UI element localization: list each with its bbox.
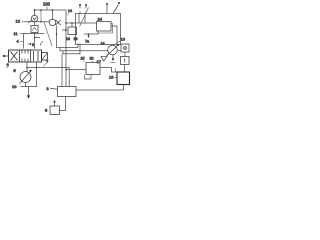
controller 24 shadow [98,24,113,34]
pilot diagonal line [44,22,52,46]
sensor small box 8 [50,106,60,115]
svg-text:13: 13 [66,37,70,41]
staircase step 2 [60,48,108,51]
wire vertical through valves 12 and 11 [34,10,36,49]
svg-text:16: 16 [109,75,114,80]
svg-text:7a: 7a [85,40,90,44]
pump 17 drain arrow [112,55,114,59]
wire bus corner down long [65,10,67,87]
control box2 [86,63,100,75]
valve 11 inner mark [32,28,36,31]
pilot valve box [68,27,77,35]
suction triangle [101,56,107,61]
directional valve actuator arrow left [3,55,9,57]
controller enclosure box [76,14,121,45]
terminal dot 3 [106,3,108,5]
coupling circle [49,19,56,26]
svg-text:11: 11 [14,31,19,36]
motor box 16 [117,72,130,85]
staircase step 3 [63,51,80,54]
valve 11 box [31,26,38,33]
terminal dot 4 [118,2,120,4]
svg-text:8: 8 [45,108,48,113]
manifold box [58,87,77,97]
coil line 2 [84,14,86,23]
sensor box with circle [121,44,129,52]
wire between sensors [124,52,126,57]
wire to motor box [124,65,126,73]
leader 10 [116,41,121,44]
svg-text:24: 24 [97,17,103,22]
node [40,21,42,23]
node [34,37,36,39]
controller 24 box [97,22,112,32]
leader 14 [67,13,69,16]
node [65,69,67,71]
wire up into motor box [123,85,125,91]
svg-text:3: 3 [47,87,49,91]
drain tick bar [111,62,116,64]
svg-text:5: 5 [14,68,17,73]
leader 16 [115,77,117,79]
curved leader to valve top [40,41,43,46]
spring diagonal [42,54,47,60]
leader 4 [20,41,24,43]
valve right cell straight ways [34,51,39,61]
svg-text:10: 10 [12,84,17,89]
node on wire [88,33,90,35]
leader from 100 [46,7,48,11]
node on descent [56,33,58,35]
wire stub into pilot box [71,23,73,27]
wire bus to control box2 [66,69,86,71]
wire horizontal control [66,22,97,24]
wire from 24 box right [111,26,117,44]
terminal stub 1 [79,5,81,14]
leader 2 [44,64,47,67]
wire from box2 right [100,68,117,73]
variable arrow through coil [80,8,89,27]
wire stub bus to coupling [52,10,54,19]
wire circle to triangle [106,54,109,57]
manifold bottom wire [60,97,66,111]
sensor box with bar [121,57,130,65]
tank down wire [28,87,30,96]
svg-text:15: 15 [81,57,85,61]
coil line 1 [78,14,80,23]
spring tick left of valve 12 [28,20,31,23]
wire x41 down to lower line [40,10,42,22]
wire valve port A down [23,34,25,49]
node [71,22,73,24]
pump 5 circle [20,72,31,83]
tank bar [21,86,38,88]
svg-text:12: 12 [16,19,21,24]
svg-text:14: 14 [68,9,72,13]
small tick near box7 [115,69,117,73]
pump 17 circle [108,45,118,55]
control box2 shadow [85,75,92,80]
pump 17 variable arrow [107,45,118,56]
svg-text:7: 7 [46,59,49,64]
stub with arrow [88,34,90,37]
manifold right wire long [76,89,124,91]
coupling X [56,20,61,25]
stub at x66 y30 [62,29,66,31]
svg-text:4: 4 [17,40,19,44]
leader 6 [6,66,9,69]
manifold left wire [50,88,58,89]
node [65,22,67,24]
valve right end spring box [42,53,48,61]
diagonal lead from dot 4 [113,5,119,14]
svg-text:10: 10 [121,37,126,42]
tank arrowhead [27,95,30,98]
staircase vertical to manifold [61,54,63,87]
wire valve port B down to tank bar [36,62,38,87]
node bus left [34,9,36,11]
svg-text:17: 17 [97,59,102,64]
node bus mid [40,9,42,11]
stub box bottom left [77,44,79,48]
stub box bottom right [79,44,81,55]
leader dashes for 15 20 [83,61,92,63]
wire top bus [35,9,67,11]
check valve 12 poppet [33,17,36,20]
terminal dot 2 [85,4,87,6]
wire horizontal through valve 12 [24,21,49,23]
pump bottom wire [25,83,27,87]
wire valve port to manifold [27,68,69,87]
label 9 arrow [28,43,31,45]
svg-text:20: 20 [90,57,94,61]
svg-text:14: 14 [101,42,105,46]
leader for label 12 [22,21,25,23]
valve left cell crossed arrows [11,52,18,61]
valve cell dividers [20,50,31,62]
terminal stub 3 [106,4,108,14]
node valve wire [26,67,28,69]
directional valve body [9,50,42,62]
node bus right [52,9,54,11]
terminal dot 1 [79,4,81,6]
wire stub with node [35,37,41,39]
stub with dot on box 8 [54,102,56,107]
check valve 12 circle [31,15,37,21]
wire from coupling down then staircase [57,26,79,48]
terminal stub 2 [85,5,87,14]
wire pump right to sensor [118,49,121,51]
pump 5 variable arrow [20,71,32,84]
svg-text:6: 6 [7,62,10,67]
wire valve port to pump [26,62,28,72]
node [65,29,67,31]
wire from 24 box left down [84,32,98,35]
wire horizontal below valve 11 [24,33,45,35]
valve mid cell blocked ports [22,51,28,62]
leader for label 11 [20,33,27,35]
svg-text:100: 100 [43,2,51,7]
